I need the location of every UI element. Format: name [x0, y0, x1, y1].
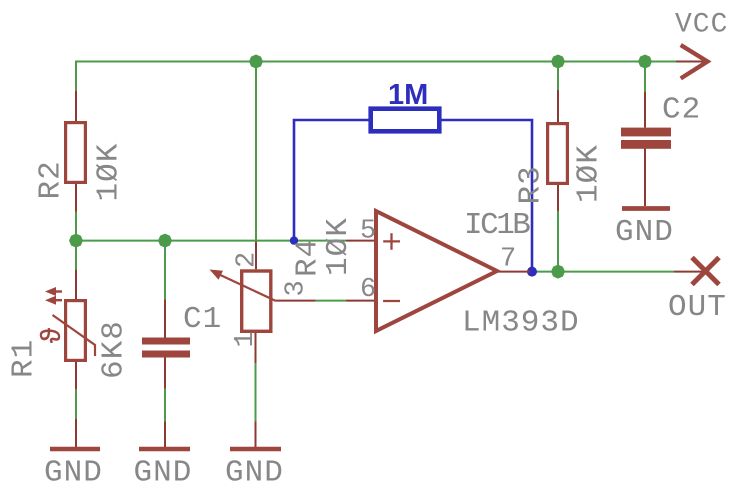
op-amp IC1B triangle	[376, 211, 497, 331]
potentiometer wiper arrow	[216, 273, 276, 301]
svg-text:C1: C1	[183, 302, 222, 337]
pin stub pot pin1	[255, 333, 257, 363]
pin stub R1 top	[75, 270, 77, 299]
svg-text:6K8: 6K8	[97, 320, 132, 379]
svg-text:6: 6	[360, 275, 376, 305]
svg-text:7: 7	[500, 245, 516, 275]
op-amp plus input mark	[383, 233, 400, 250]
svg-text:C2: C2	[662, 93, 701, 128]
svg-text:OUT: OUT	[668, 290, 727, 325]
svg-text:VCC: VCC	[675, 10, 728, 41]
svg-text:ϑ: ϑ	[39, 327, 69, 343]
junction dot blue at output	[527, 267, 537, 277]
svg-text:1: 1	[231, 331, 261, 347]
junction dot at rail x645	[638, 55, 652, 69]
pin stub opamp pin7 out	[498, 271, 530, 273]
svg-text:GND: GND	[225, 456, 284, 490]
wire C2 drop from rail	[644, 62, 646, 93]
pin stub opamp pin5	[346, 240, 375, 242]
junction dot blue at pin5	[290, 236, 298, 244]
svg-text:1M: 1M	[388, 79, 428, 111]
pin stub VCC	[676, 61, 706, 63]
svg-text:1ØK: 1ØK	[321, 217, 356, 276]
svg-text:R2: R2	[34, 160, 69, 199]
pin stub pot gnd	[255, 421, 257, 447]
ground bar C2	[622, 206, 670, 211]
pin stub C2 top	[644, 92, 646, 128]
wire R3 bottom to output	[557, 211, 559, 272]
svg-text:5: 5	[360, 217, 376, 247]
ground bar pot	[230, 447, 281, 451]
pin stub R2 bottom	[75, 184, 77, 212]
capacitor C2 plates	[621, 128, 671, 137]
pin stub OUT	[674, 271, 704, 273]
svg-text:GND: GND	[134, 456, 193, 490]
pin stub opamp pin6	[346, 300, 375, 302]
wire R1 to GND	[75, 389, 77, 419]
svg-text:GND: GND	[44, 456, 103, 490]
pin stub pot pin2	[255, 242, 257, 270]
R1 thermistor stroke	[53, 315, 96, 356]
pin stub pot wiper pin3	[276, 300, 316, 302]
pin stub C1 top	[164, 299, 166, 337]
capacitor C1 plates	[142, 338, 190, 345]
svg-text:LM393D: LM393D	[462, 306, 580, 341]
ground bar R1	[50, 447, 100, 451]
R1 light arrow bottom	[54, 299, 62, 301]
wire C1 top drop	[164, 241, 166, 300]
wire 1M blue feedback net	[294, 120, 369, 241]
pin stub R3 bottom	[557, 184, 559, 211]
ground bar C1	[139, 447, 190, 451]
svg-text:GND: GND	[615, 215, 674, 250]
junction dot R2/R1 node	[69, 234, 83, 248]
wire VCC top rail	[76, 62, 676, 92]
wire C1 to GND	[164, 389, 166, 422]
wire pot pin1 to GND	[255, 363, 257, 421]
potentiometer R4 body	[242, 271, 271, 331]
svg-text:1ØK: 1ØK	[572, 144, 607, 203]
svg-text:3: 3	[282, 280, 312, 296]
wire output net	[532, 271, 674, 273]
resistor R1 body (LDR/thermistor)	[66, 301, 86, 361]
op-amp minus input mark	[383, 300, 400, 302]
wire mid horizontal net to pin5	[76, 240, 346, 242]
wire wiper to pin6	[316, 300, 346, 302]
junction dot at rail x558	[551, 55, 565, 69]
wire R3 drop from rail	[557, 62, 559, 91]
VCC supply arrow	[681, 45, 708, 78]
svg-text:2: 2	[233, 252, 263, 268]
R1 light arrow top	[54, 290, 62, 292]
junction dot output/R3 node	[551, 265, 565, 279]
svg-text:1ØK: 1ØK	[92, 143, 127, 202]
pin stub C1 gnd	[164, 421, 166, 447]
pin stub R1 gnd	[75, 419, 77, 447]
pin stub R3 top	[557, 90, 559, 122]
pin stub C1 bottom	[164, 358, 166, 389]
resistor R2 body	[66, 123, 86, 183]
resistor R4 value 1M (blue)	[371, 109, 440, 132]
OUT port X symbol	[692, 258, 719, 285]
junction dot at rail x256	[249, 55, 263, 69]
pin stub R1 bottom	[75, 362, 77, 389]
wire R2 bottom to junction	[75, 212, 77, 270]
resistor R3 body	[548, 124, 568, 184]
junction dot C1 node	[158, 234, 172, 248]
wire pot-top drop from rail	[255, 62, 257, 242]
pin stub R2 top	[75, 91, 77, 121]
svg-text:R1: R1	[7, 339, 42, 378]
pin stub C2 bottom	[644, 149, 646, 207]
svg-text:R3: R3	[514, 165, 549, 204]
svg-text:IC1B: IC1B	[464, 208, 530, 243]
